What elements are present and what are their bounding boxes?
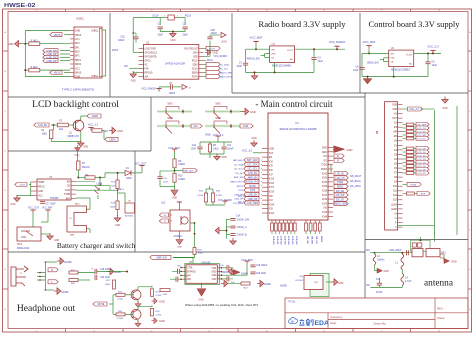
svg-text:10kΩ: 10kΩ <box>198 253 204 255</box>
svg-text:100nF: 100nF <box>118 40 125 42</box>
svg-text:GND: GND <box>221 156 227 159</box>
svg-text:VOUT: VOUT <box>287 50 294 52</box>
svg-text:FM: FM <box>366 284 369 287</box>
svg-text:VIN: VIN <box>390 54 394 56</box>
svg-text:MUTE: MUTE <box>237 186 244 188</box>
svg-text:LCD_D3: LCD_D3 <box>283 236 285 245</box>
svg-text:R10: R10 <box>178 176 183 178</box>
svg-text:IO42: IO42 <box>322 173 328 175</box>
svg-text:VDD: VDD <box>392 109 397 111</box>
svg-text:GND: GND <box>75 31 80 33</box>
svg-text:LEDK: LEDK <box>391 209 397 211</box>
svg-text:IO48: IO48 <box>322 216 328 218</box>
svg-text:CTRL: CTRL <box>187 268 194 270</box>
svg-text:100nF: 100nF <box>227 149 234 151</box>
svg-text:I2S_WS: I2S_WS <box>336 194 345 197</box>
svg-text:MCLK: MCLK <box>320 236 322 243</box>
svg-text:VBUS: VBUS <box>54 72 61 75</box>
svg-text:XC6206: XC6206 <box>295 280 304 282</box>
svg-text:GND: GND <box>177 247 182 249</box>
svg-text:LCD_D5: LCD_D5 <box>291 236 293 245</box>
svg-text:S8050 J3Y: S8050 J3Y <box>68 135 80 138</box>
svg-text:LCD_BL: LCD_BL <box>38 124 48 127</box>
svg-text:LCD_BL: LCD_BL <box>235 173 244 175</box>
svg-text:LEDA: LEDA <box>109 138 116 141</box>
svg-text:GND: GND <box>75 77 80 79</box>
svg-text:LCD_RES: LCD_RES <box>247 202 258 205</box>
svg-text:PROG: PROG <box>38 187 45 189</box>
svg-text:GPO2/DCLK: GPO2/DCLK <box>145 52 158 54</box>
svg-text:I2S_BCLK: I2S_BCLK <box>350 181 361 183</box>
svg-text:VCC_3.3: VCC_3.3 <box>427 44 439 48</box>
svg-text:100nF_B: 100nF_B <box>237 234 247 237</box>
svg-text:STDB: STDB <box>64 194 70 196</box>
svg-text:TXD0: TXD0 <box>337 181 344 184</box>
svg-text:IO16: IO16 <box>269 183 275 185</box>
svg-text:GND: GND <box>322 148 327 150</box>
svg-text:LCD_BL: LCD_BL <box>248 172 258 175</box>
svg-text:RD: RD <box>394 136 398 138</box>
svg-text:GND: GND <box>205 134 211 137</box>
svg-text:SHELL: SHELL <box>91 76 99 78</box>
svg-text:IO15: IO15 <box>269 179 275 181</box>
svg-text:TEMP: TEMP <box>38 182 45 184</box>
svg-text:I2S_WS: I2S_WS <box>311 236 313 244</box>
svg-text:I2S_CK: I2S_CK <box>315 236 317 244</box>
svg-text:Date:: Date: <box>330 321 337 325</box>
svg-text:I2S_CK: I2S_CK <box>336 198 345 201</box>
svg-text:GND: GND <box>38 191 43 193</box>
svg-text:VCC_RADIO: VCC_RADIO <box>141 88 156 91</box>
svg-text:IO37: IO37 <box>322 195 328 197</box>
svg-text:DP1: DP1 <box>75 47 80 49</box>
svg-text:LCD_BL: LCD_BL <box>335 173 345 176</box>
svg-text:I2C_SDA: I2C_SDA <box>248 163 258 166</box>
svg-text:EN: EN <box>67 182 70 184</box>
svg-text:LCD_D1: LCD_D1 <box>276 236 278 245</box>
svg-text:FM: FM <box>124 65 127 68</box>
svg-text:When using AD41058, no welding: When using AD41058, no welding C21, R22,… <box>185 303 258 307</box>
svg-text:RADIO_SEN: RADIO_SEN <box>333 203 347 206</box>
svg-text:10kΩ: 10kΩ <box>213 149 219 151</box>
svg-text:C26: C26 <box>120 36 125 38</box>
svg-text:NC: NC <box>145 64 149 66</box>
svg-text:Headphone out: Headphone out <box>17 303 76 314</box>
svg-text:VDD: VDD <box>212 275 217 277</box>
svg-text:0.2kΩ: 0.2kΩ <box>19 185 25 187</box>
svg-text:VSS: VSS <box>271 54 276 56</box>
svg-text:4.7kΩ: 4.7kΩ <box>117 298 123 300</box>
svg-text:LCD_D0: LCD_D0 <box>272 236 274 245</box>
svg-text:Control board 3.3V supply: Control board 3.3V supply <box>369 19 461 29</box>
svg-text:1kΩ: 1kΩ <box>59 129 63 131</box>
svg-text:HWSE-02: HWSE-02 <box>4 3 36 9</box>
svg-text:C17 10uF: C17 10uF <box>46 204 57 206</box>
svg-text:Company:: Company: <box>330 315 343 319</box>
svg-text:C19 100nF: C19 100nF <box>256 265 268 267</box>
svg-text:C24: C24 <box>192 145 197 147</box>
svg-text:IO46: IO46 <box>269 204 275 206</box>
svg-text:IO40: IO40 <box>322 182 328 184</box>
svg-text:SHELL: SHELL <box>91 31 99 33</box>
svg-text:1kΩ: 1kΩ <box>111 186 115 188</box>
svg-text:GND: GND <box>115 225 120 227</box>
svg-text:IO45: IO45 <box>322 212 328 214</box>
svg-text:USB_DP: USB_DP <box>46 60 56 63</box>
svg-text:LCD_RES: LCD_RES <box>233 203 244 205</box>
svg-text:Battery charger and switch: Battery charger and switch <box>57 241 136 250</box>
svg-text:4.7kΩ: 4.7kΩ <box>197 195 203 197</box>
svg-text:10uF: 10uF <box>432 64 438 67</box>
svg-text:C22 10uF: C22 10uF <box>100 277 111 279</box>
svg-text:I2C_SCL: I2C_SCL <box>234 169 244 171</box>
svg-text:LCD_CS: LCD_CS <box>335 177 345 180</box>
svg-text:VOUT: VOUT <box>406 54 413 56</box>
svg-text:VBUS: VBUS <box>54 34 61 37</box>
svg-text:GND: GND <box>211 272 216 274</box>
svg-text:DN1: DN1 <box>75 43 80 45</box>
svg-text:GND: GND <box>442 108 447 110</box>
svg-text:MSK12C02: MSK12C02 <box>17 247 30 250</box>
svg-text:VCC_BAT: VCC_BAT <box>250 36 263 40</box>
svg-text:VSS: VSS <box>390 58 395 60</box>
svg-text:IO15: IO15 <box>250 189 256 192</box>
svg-text:10uF: 10uF <box>353 69 359 72</box>
svg-text:LOUT/GPS: LOUT/GPS <box>145 48 157 50</box>
svg-text:SDIO: SDIO <box>192 64 198 66</box>
svg-text:VON: VON <box>211 279 216 281</box>
svg-text:NS4150: NS4150 <box>201 261 211 264</box>
svg-text:IO0: IO0 <box>194 125 199 128</box>
svg-text:C23 10uF: C23 10uF <box>256 273 267 275</box>
svg-text:DP2: DP2 <box>75 56 80 58</box>
svg-text:10uF: 10uF <box>163 182 169 184</box>
svg-text:CC2: CC2 <box>75 68 80 70</box>
svg-text:10kΩ: 10kΩ <box>42 133 48 135</box>
svg-text:SCLK: SCLK <box>192 68 198 70</box>
svg-text:GND: GND <box>322 152 327 154</box>
svg-text:10kΩ: 10kΩ <box>105 284 111 286</box>
svg-text:LEDK: LEDK <box>92 115 99 118</box>
svg-text:TP4056: TP4056 <box>50 197 59 200</box>
svg-text:I2C_SCL: I2C_SCL <box>220 68 230 70</box>
svg-text:500mΩ: 500mΩ <box>82 167 90 169</box>
svg-text:VCC_OUT: VCC_OUT <box>135 162 147 165</box>
svg-text:DN2: DN2 <box>75 52 80 54</box>
svg-text:MUTE: MUTE <box>249 185 256 188</box>
svg-text:TXD0: TXD0 <box>321 165 328 167</box>
svg-text:WR: WR <box>393 132 397 134</box>
svg-text:GND: GND <box>269 149 274 151</box>
svg-text:REV:: REV: <box>437 307 444 311</box>
svg-text:G: G <box>4 269 6 271</box>
svg-text:I2C_SCL: I2C_SCL <box>248 168 258 171</box>
svg-text:LCD_D7: LCD_D7 <box>418 173 427 175</box>
svg-text:USB_DP: USB_DP <box>248 198 258 201</box>
svg-text:TYPE-C 16PIN 2MD(073): TYPE-C 16PIN 2MD(073) <box>62 88 94 92</box>
svg-text:GPO3/INTB: GPO3/INTB <box>145 56 157 58</box>
svg-text:USB_DN: USB_DN <box>234 194 243 196</box>
svg-text:C38: C38 <box>211 30 216 32</box>
svg-text:ROUT/DOUT: ROUT/DOUT <box>185 48 199 50</box>
svg-text:VCC_BAT: VCC_BAT <box>363 40 376 44</box>
svg-text:INR: INR <box>187 279 191 281</box>
svg-text:MUTE: MUTE <box>98 303 105 306</box>
svg-text:VCC_3.3: VCC_3.3 <box>409 108 419 111</box>
svg-text:VCC_OUT: VCC_OUT <box>28 208 40 210</box>
svg-text:RSTN: RSTN <box>192 76 198 78</box>
svg-text:FMI: FMI <box>145 68 149 70</box>
svg-text:VDD: VDD <box>193 56 198 58</box>
svg-text:Y-: Y- <box>395 227 397 229</box>
svg-text:U1: U1 <box>295 121 299 125</box>
svg-text:GND: GND <box>198 300 203 302</box>
svg-text:100kΩ: 100kΩ <box>178 164 185 166</box>
svg-text:C17: C17 <box>376 278 381 281</box>
svg-text:100kΩ: 100kΩ <box>178 179 185 181</box>
svg-text:CE: CE <box>390 62 394 64</box>
svg-text:Radio board 3.3V supply: Radio board 3.3V supply <box>258 19 346 29</box>
svg-text:- Main control circuit: - Main control circuit <box>255 99 333 109</box>
svg-text:RADIO_RST: RADIO_RST <box>246 181 260 184</box>
svg-text:TITLE:: TITLE: <box>287 299 296 303</box>
svg-text:RS: RS <box>394 127 398 129</box>
svg-text:USB_DN: USB_DN <box>248 194 258 197</box>
svg-text:I2S_LRCK: I2S_LRCK <box>350 186 361 188</box>
svg-text:IO36: IO36 <box>322 199 328 201</box>
svg-text:Drawn By:: Drawn By: <box>374 321 387 325</box>
svg-text:22pF: 22pF <box>157 34 163 37</box>
svg-text:CS: CS <box>394 123 398 125</box>
svg-text:AGND: AGND <box>264 283 271 286</box>
svg-text:CE: CE <box>67 186 71 188</box>
svg-text:CE: CE <box>271 57 275 59</box>
svg-text:RCLK: RCLK <box>207 60 214 62</box>
svg-text:VCC_3.3: VCC_3.3 <box>88 123 99 126</box>
svg-text:I2S_SD: I2S_SD <box>336 190 345 193</box>
svg-text:I2S_DOUT: I2S_DOUT <box>350 176 362 178</box>
svg-text:GND: GND <box>338 282 344 285</box>
svg-text:VCC_3.3: VCC_3.3 <box>242 150 253 153</box>
svg-text:VCC: VCC <box>38 196 43 198</box>
svg-text:Sheet:: Sheet: <box>437 316 445 320</box>
svg-text:4.7uH: 4.7uH <box>405 280 412 283</box>
svg-text:G: G <box>469 269 471 271</box>
svg-text:VCC_: VCC_ <box>74 155 81 157</box>
svg-text:VOR: VOR <box>211 268 216 270</box>
svg-text:LCD_D6: LCD_D6 <box>295 236 297 245</box>
svg-text:USB_DP: USB_DP <box>234 199 243 201</box>
svg-text:IO41: IO41 <box>322 178 328 180</box>
svg-text:VIN: VIN <box>271 50 275 52</box>
svg-text:USB1: USB1 <box>76 16 84 20</box>
svg-text:GND: GND <box>251 137 257 140</box>
svg-text:RXD0: RXD0 <box>321 169 328 171</box>
svg-text:U12: U12 <box>161 202 166 204</box>
svg-text:IO10: IO10 <box>269 213 275 215</box>
svg-text:10uF: 10uF <box>191 149 197 151</box>
svg-text:DCLK: DCLK <box>112 49 119 52</box>
svg-text:SENB: SENB <box>192 72 199 74</box>
svg-text:FM: FM <box>366 249 369 252</box>
svg-text:10uF: 10uF <box>318 60 324 63</box>
svg-text:RFGND: RFGND <box>145 72 153 74</box>
svg-text:IO17: IO17 <box>269 187 275 189</box>
svg-text:100nF_SW: 100nF_SW <box>237 219 250 222</box>
svg-text:LCD backlight control: LCD backlight control <box>32 99 119 110</box>
svg-text:4.7kΩ: 4.7kΩ <box>156 295 162 297</box>
svg-text:IO38: IO38 <box>322 191 328 193</box>
svg-text:IO35: IO35 <box>322 203 328 205</box>
svg-text:100nF_A: 100nF_A <box>237 226 247 229</box>
svg-text:IO18: IO18 <box>269 192 275 194</box>
svg-text:VBUS: VBUS <box>75 73 82 75</box>
svg-text:AGND: AGND <box>280 285 287 288</box>
svg-text:RADIO_EN: RADIO_EN <box>247 58 260 61</box>
svg-text:RCLK: RCLK <box>185 15 192 18</box>
svg-text:SENS_EN: SENS_EN <box>367 62 379 65</box>
svg-text:10kΩ: 10kΩ <box>110 207 116 209</box>
svg-text:GND: GND <box>172 197 177 199</box>
svg-text:AMP_EN: AMP_EN <box>156 256 166 259</box>
svg-text:RXD0: RXD0 <box>337 186 344 189</box>
svg-text:IO46: IO46 <box>243 125 249 128</box>
svg-text:4.7kΩ: 4.7kΩ <box>117 318 123 320</box>
svg-text:C20(-)15pF: C20(-)15pF <box>389 249 402 252</box>
svg-text:GND: GND <box>10 204 15 206</box>
svg-text:EN: EN <box>269 157 273 159</box>
svg-text:GND: GND <box>54 240 59 242</box>
svg-text:I2S_SD: I2S_SD <box>306 236 308 244</box>
svg-text:GND: GND <box>131 81 136 83</box>
svg-text:10uF: 10uF <box>237 65 243 68</box>
svg-text:22pF: 22pF <box>182 34 188 37</box>
svg-text:LCD_D2: LCD_D2 <box>280 236 282 245</box>
svg-text:4.7kΩ: 4.7kΩ <box>216 195 222 197</box>
svg-text:LCD_RD: LCD_RD <box>417 139 426 141</box>
svg-text:3V3: 3V3 <box>269 153 274 155</box>
svg-text:+: + <box>91 267 93 271</box>
svg-text:VCC_RADIO: VCC_RADIO <box>329 40 346 44</box>
svg-text:100nF: 100nF <box>169 92 176 95</box>
svg-text:X-: X- <box>395 222 397 224</box>
svg-text:VBUS: VBUS <box>75 35 82 37</box>
svg-text:IO15: IO15 <box>238 190 244 192</box>
svg-text:EDA: EDA <box>315 320 329 327</box>
svg-text:AMP_EN: AMP_EN <box>248 176 258 179</box>
svg-text:CC1: CC1 <box>75 39 80 41</box>
svg-text:180nH: 180nH <box>377 259 384 262</box>
svg-text:GND: GND <box>392 104 397 106</box>
svg-text:470nF: 470nF <box>376 291 383 294</box>
svg-text:LEDK: LEDK <box>420 194 426 196</box>
svg-text:IO39: IO39 <box>322 186 328 188</box>
svg-text:GND: GND <box>384 270 390 273</box>
svg-text:GND: GND <box>83 147 88 149</box>
svg-text:R: R <box>51 269 53 272</box>
svg-text:INP: INP <box>187 275 191 277</box>
svg-text:SW2: SW2 <box>17 244 23 246</box>
svg-text:GPO1: GPO1 <box>145 60 152 62</box>
svg-text:BAT_ADC: BAT_ADC <box>247 159 258 162</box>
svg-text:antenna: antenna <box>424 279 453 289</box>
svg-text:SBU2: SBU2 <box>75 64 82 66</box>
svg-text:RST: RST <box>393 118 398 120</box>
svg-text:GND: GND <box>170 40 175 42</box>
svg-text:RCLK: RCLK <box>192 60 198 62</box>
svg-text:4.7kΩ: 4.7kΩ <box>156 314 162 316</box>
svg-text:DCLK: DCLK <box>153 15 160 18</box>
svg-text:NC: NC <box>290 59 294 61</box>
svg-text:ON: ON <box>314 282 318 284</box>
svg-text:SBU1: SBU1 <box>75 60 82 62</box>
svg-text:C14: C14 <box>236 215 241 218</box>
svg-text:NC: NC <box>409 63 413 65</box>
svg-text:GND: GND <box>193 52 198 54</box>
svg-text:VO: VO <box>394 114 397 116</box>
svg-text:GND: GND <box>221 42 226 44</box>
